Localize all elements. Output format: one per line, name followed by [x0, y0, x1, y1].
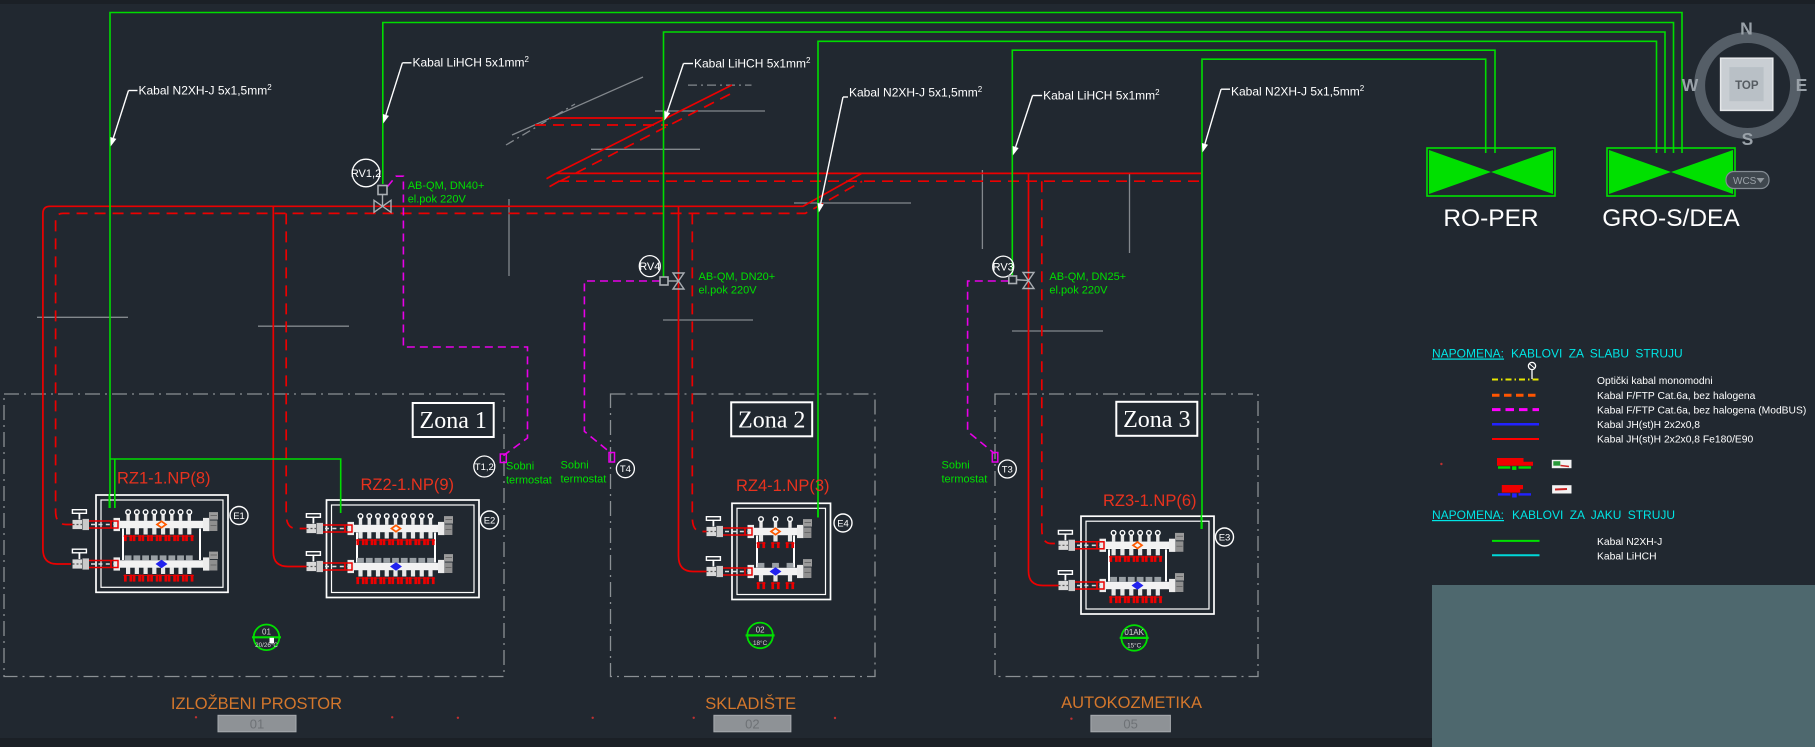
manifold RZ2 cabinet box: [327, 500, 480, 598]
svg-text:E2: E2: [484, 516, 496, 527]
svg-text:AB-QM, DN40+: AB-QM, DN40+: [408, 180, 485, 192]
svg-text:RZ4-1.NP(3): RZ4-1.NP(3): [736, 477, 830, 495]
wire: red dashed drop to RZ4: [692, 213, 708, 531]
valve actuator circle RV3: [993, 256, 1014, 277]
wire: green branch to RZ1/RZ2 cabinets: [110, 459, 341, 513]
legend symbol: manifold icon A: [1497, 458, 1533, 466]
wire: green cable drop into RZ1: [114, 494, 116, 508]
svg-text:Sobni: Sobni: [561, 460, 589, 472]
manifold RZ1 cabinet box: [96, 495, 228, 592]
svg-text:E4: E4: [837, 519, 849, 530]
svg-text:AUTOKOZMETIKA: AUTOKOZMETIKA: [1061, 694, 1202, 712]
number plate 01: [218, 715, 296, 732]
zone sensor circle 02: [747, 623, 773, 649]
viewcube letters N W E S: [1682, 19, 1808, 150]
svg-text:Kabal N2XH-J 5x1,5mm2: Kabal N2XH-J 5x1,5mm2: [1231, 84, 1365, 99]
wire: green cable drop into RZ3: [1200, 515, 1202, 529]
svg-text:el.pok 220V: el.pok 220V: [408, 194, 467, 206]
Zona 3 boundary: [995, 394, 1258, 677]
manifold RZ1 supply bar: [122, 529, 124, 561]
Zona 2 boundary: [611, 394, 876, 677]
svg-text:RZ1-1.NP(8): RZ1-1.NP(8): [117, 470, 211, 488]
viewcube top face: [1721, 58, 1773, 110]
leader label Kabal N2XH-J (zona2): [843, 96, 848, 98]
manifold RZ4 return shutoff valve: [722, 568, 752, 575]
wire: magenta ModBUS cable RV1,2 to T1,2: [388, 176, 528, 455]
svg-text:RZ3-1.NP(6): RZ3-1.NP(6): [1103, 492, 1197, 510]
manifold RZ4 supply bar: [756, 536, 758, 568]
leader label Kabal LiHCH (RV1,2): [402, 62, 411, 64]
WCS selector pill: [1726, 172, 1769, 189]
legend row: cyan LiHCH: [1492, 554, 1540, 556]
svg-text:AB-QM, DN20+: AB-QM, DN20+: [699, 271, 776, 283]
svg-text:E1: E1: [233, 511, 245, 522]
svg-text:Zona 1: Zona 1: [420, 408, 487, 434]
svg-text:Optički kabal monomodni: Optički kabal monomodni: [1597, 376, 1713, 387]
wire: red dashed drop to RZ2: [286, 213, 308, 528]
leader label Kabal N2XH-J (zona3): [1221, 88, 1230, 90]
manifold RZ2 supply shutoff valve: [322, 525, 352, 532]
svg-text:Kabal F/FTP Cat.6a, bez haloge: Kabal F/FTP Cat.6a, bez halogena: [1597, 391, 1756, 402]
thermostat circle T1,2: [474, 456, 495, 477]
svg-text:AB-QM, DN25+: AB-QM, DN25+: [1049, 271, 1126, 283]
manifold RZ2 return shutoff valve: [322, 563, 352, 570]
svg-text:Kabal LiHCH 5x1mm2: Kabal LiHCH 5x1mm2: [694, 56, 811, 71]
wire: green cable LiHCH RV3: [1012, 50, 1495, 276]
valve bowtie RV3: [1023, 273, 1034, 289]
legend row: orange dashed: [1492, 394, 1539, 397]
manifold RZ2 return bar: [352, 563, 440, 570]
svg-text:IZLOŽBENI PROSTOR: IZLOŽBENI PROSTOR: [171, 694, 342, 713]
svg-text:T3: T3: [1002, 465, 1013, 476]
manifold RZ1 supply shutoff valve: [88, 521, 118, 528]
electric box badge E2: [481, 511, 499, 529]
wire: green cable drop into RZ2: [340, 499, 342, 513]
legend row: yellow dash-dot: [1492, 379, 1539, 381]
svg-text:termostat: termostat: [942, 474, 988, 486]
svg-text:Kabal JH(st)H 2x2x0,8: Kabal JH(st)H 2x2x0,8: [1597, 420, 1700, 431]
wire: red return pipe main (dashed) lower bus with left drop to RZ1: [56, 181, 863, 524]
manifold RZ1 return bar: [118, 561, 205, 568]
wire: green cable drop into RZ4: [817, 502, 819, 517]
wire: red riser diagonal dashed: [560, 91, 736, 181]
zone label box Zona 2: [731, 402, 812, 436]
svg-text:Kabal LiHCH 5x1mm2: Kabal LiHCH 5x1mm2: [413, 55, 530, 70]
thermostat circle T4: [616, 460, 634, 478]
svg-text:Kabal N2XH-J: Kabal N2XH-J: [1597, 537, 1662, 548]
svg-text:02: 02: [756, 625, 765, 634]
wire: red solid drop to RZ4 (through RV4): [679, 206, 709, 571]
svg-text:01AK: 01AK: [1124, 628, 1144, 637]
svg-text:RV4: RV4: [639, 261, 660, 273]
wire: magenta ModBUS cable RV3 to T3: [968, 281, 1009, 454]
manifold RZ4 return bar: [752, 568, 799, 575]
svg-text:Sobni: Sobni: [506, 461, 534, 473]
manifold RZ2 supply bar: [356, 533, 358, 563]
zone label box Zona 3: [1116, 402, 1197, 436]
manifold RZ3 cabinet box: [1081, 516, 1214, 614]
manifold RZ1 return shutoff valve: [88, 561, 118, 568]
valve body square RV3: [1009, 276, 1017, 284]
svg-text:T4: T4: [620, 464, 631, 475]
wire: red solid drop to RZ3 (through RV3): [1029, 173, 1061, 585]
leader label Kabal LiHCH (RV3): [1033, 95, 1043, 97]
svg-text:Kabal N2XH-J 5x1,5mm2: Kabal N2XH-J 5x1,5mm2: [139, 83, 273, 98]
svg-text:S: S: [1742, 129, 1754, 149]
manifold RZ4 cabinet box: [732, 503, 831, 599]
svg-text:E: E: [1796, 75, 1808, 95]
wire: red solid drop to RZ2: [273, 206, 308, 566]
number plate 02: [714, 715, 791, 732]
svg-text:KABLOVI ZA SLABU STRUJU: KABLOVI ZA SLABU STRUJU: [1511, 347, 1683, 361]
legend row: magenta dashed: [1492, 408, 1539, 411]
svg-text:N: N: [1740, 19, 1753, 39]
number plate 05: [1091, 715, 1171, 732]
wire: red mid bus left chamfer stubs: [547, 173, 557, 178]
svg-text:Kabal LiHCH: Kabal LiHCH: [1597, 551, 1657, 562]
legend symbol: optical cable marker: [1528, 362, 1535, 369]
viewcube compass ring: [1700, 38, 1796, 134]
zone label box Zona 1: [413, 403, 494, 437]
svg-text:E3: E3: [1219, 533, 1231, 544]
svg-text:RV1,2: RV1,2: [351, 168, 381, 180]
distribution board GRO-S/DEA: [1607, 148, 1735, 196]
wire: red solid mid bus: [556, 172, 1201, 174]
valve bowtie RV4: [673, 273, 684, 289]
thermostat circle T3: [998, 460, 1016, 478]
wire: red riser diagonal solid: [556, 85, 732, 173]
valve actuator circle RV1,2: [352, 159, 380, 187]
electric box badge E4: [834, 514, 852, 532]
svg-text:SKLADIŠTE: SKLADIŠTE: [705, 694, 796, 713]
legend row: green N2XH-J: [1492, 540, 1540, 542]
svg-text:Kabal LiHCH 5x1mm2: Kabal LiHCH 5x1mm2: [1043, 88, 1160, 103]
zone sensor circle 01: [254, 625, 280, 651]
leader label Kabal LiHCH (RV4): [684, 63, 694, 65]
svg-text:T1,2: T1,2: [475, 462, 494, 473]
wall line (background architecture): [37, 77, 1130, 331]
svg-text:KABLOVI ZA JAKU STRUJU: KABLOVI ZA JAKU STRUJU: [1512, 508, 1675, 522]
legend symbol: manifold icon B: [1502, 485, 1523, 493]
wire: green cable LiHCH RV4: [664, 32, 1666, 277]
svg-text:Kabal N2XH-J 5x1,5mm2: Kabal N2XH-J 5x1,5mm2: [849, 85, 983, 100]
svg-text:Zona 2: Zona 2: [738, 407, 805, 433]
svg-text:NAPOMENA:: NAPOMENA:: [1432, 347, 1504, 361]
valve body square RV4: [660, 277, 668, 285]
svg-text:Sobni: Sobni: [942, 460, 970, 472]
electric box badge E3: [1216, 528, 1234, 546]
svg-text:W: W: [1682, 75, 1699, 95]
legend row: blue solid: [1492, 423, 1539, 426]
wire: red upper short bus dashed: [535, 124, 668, 126]
svg-text:termostat: termostat: [561, 474, 607, 486]
distribution board RO-PER: [1427, 148, 1555, 196]
manifold RZ3 return bar: [1104, 582, 1171, 589]
svg-text:Zona 3: Zona 3: [1123, 407, 1190, 433]
valve actuator circle RV4: [639, 256, 660, 277]
manifold RZ3 return shutoff valve: [1074, 582, 1104, 589]
wire: red dashed mid bus: [558, 180, 1201, 182]
svg-text:18°C: 18°C: [753, 639, 768, 647]
svg-text:RO-PER: RO-PER: [1443, 205, 1538, 232]
svg-text:termostat: termostat: [506, 475, 552, 487]
Zona 1 boundary: [4, 394, 504, 677]
wire: red dashed drop to RZ3: [1042, 181, 1060, 543]
svg-text:RV3: RV3: [993, 262, 1014, 274]
svg-text:02: 02: [745, 717, 759, 732]
manifold RZ4 supply shutoff valve: [722, 528, 752, 535]
svg-text:el.pok 220V: el.pok 220V: [699, 285, 758, 297]
svg-text:20/26°C: 20/26°C: [255, 641, 278, 649]
svg-text:Kabal JH(st)H 2x2x0,8 Fe180/E9: Kabal JH(st)H 2x2x0,8 Fe180/E90: [1597, 435, 1754, 446]
svg-text:WCS: WCS: [1733, 176, 1757, 187]
electric box badge E1: [230, 507, 248, 525]
wire: green cable N2XH-J zone3: [1202, 59, 1486, 529]
svg-text:NAPOMENA:: NAPOMENA:: [1432, 508, 1504, 522]
svg-text:01: 01: [262, 627, 271, 636]
wire: magenta ModBUS cable RV4 to T4: [584, 281, 660, 454]
manifold RZ3 supply bar: [1108, 549, 1110, 581]
svg-text:RZ2-1.NP(9): RZ2-1.NP(9): [361, 476, 455, 494]
wire: red upper short bus solid: [549, 117, 664, 119]
valve body square RV1,2: [378, 186, 387, 195]
valve bowtie RV1,2: [374, 200, 391, 212]
svg-text:15°C: 15°C: [1127, 641, 1142, 649]
leader label Kabal N2XH-J (zona1): [129, 90, 138, 92]
wire: green cable LiHCH RV1,2: [383, 23, 1674, 185]
legend row: red solid: [1492, 438, 1539, 440]
svg-text:01: 01: [250, 717, 264, 732]
wire: green cable N2XH-J zone2: [818, 41, 1657, 517]
wire: green cable N2XH-J zone1: [110, 13, 1682, 460]
paper layout panel: [1432, 585, 1815, 747]
svg-text:05: 05: [1123, 717, 1137, 732]
zone sensor circle 01AK: [1121, 625, 1147, 651]
manifold RZ3 supply shutoff valve: [1074, 542, 1104, 549]
wire: green cable drop into RZ1: [108, 494, 110, 508]
wire: red supply pipe main (solid) lower bus with left drop to RZ1: [43, 173, 862, 564]
svg-text:el.pok 220V: el.pok 220V: [1049, 285, 1108, 297]
svg-text:GRO-S/DEA: GRO-S/DEA: [1602, 205, 1740, 232]
svg-text:Kabal F/FTP Cat.6a, bez haloge: Kabal F/FTP Cat.6a, bez halogena (ModBUS…: [1597, 405, 1806, 416]
svg-text:TOP: TOP: [1735, 80, 1759, 92]
